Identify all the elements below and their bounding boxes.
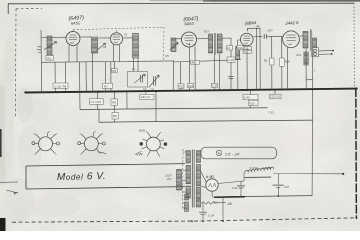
grid leak vertical x281	[281, 36, 283, 90]
capacitor C16 box	[212, 83, 218, 87]
tube T1 electrodes	[69, 35, 78, 43]
vertical rail-bus x65	[65, 62, 67, 92]
socket S1 spokes	[35, 132, 56, 153]
osc coil winding	[133, 34, 139, 59]
T3 leg 2	[194, 47, 196, 91]
padder arrow 2	[149, 75, 160, 87]
primary tap stubs	[183, 152, 186, 208]
resistor R12 box	[178, 84, 184, 89]
capacitor C10b box	[188, 83, 194, 88]
pilot lamp cross	[217, 152, 221, 155]
transformer secondary winding 2	[196, 165, 200, 187]
resistor R20b box	[249, 100, 259, 105]
socket S3 right terminal	[164, 143, 167, 146]
svg-text:(6B44: (6B44	[245, 20, 257, 26]
voice coil terminal 2	[314, 53, 317, 56]
IF2 primary winding	[209, 34, 213, 53]
volume pot box	[140, 94, 154, 99]
AVC cap bars	[228, 77, 234, 79]
T4 grid return twin vertical 1	[256, 28, 258, 90]
vertical x250 bus to line A through C40 R20	[250, 90, 252, 108]
volume box vertical to bus x146	[145, 92, 147, 95]
vertical x127 bus to line A	[126, 92, 128, 109]
coupling cap C4 bars	[264, 34, 266, 38]
heater wavy lead	[201, 202, 217, 204]
vertical x105 rail-bus	[105, 62, 107, 92]
svg-text:7.5.2: 7.5.2	[268, 111, 275, 115]
svg-text:R9: R9	[112, 100, 116, 104]
svg-text:FUSE - 0.5AM: FUSE - 0.5AM	[250, 166, 272, 170]
antenna coil winding	[47, 36, 52, 56]
speaker wire 1	[319, 50, 333, 52]
vertical x156 bus to line B	[155, 92, 157, 122]
PSU bottom rail	[239, 196, 312, 197]
filter cap C41 plates	[237, 186, 245, 188]
right solid dark border	[355, 88, 358, 219]
T5 cathode leg	[287, 48, 289, 91]
transformer primary winding 3	[186, 186, 191, 198]
svg-text:# 80: # 80	[206, 174, 215, 179]
socket S3 circle	[147, 137, 161, 151]
R6 stub vertical	[114, 62, 116, 69]
top edge scan smear	[203, 0, 360, 2]
T4 left winding hatch	[236, 47, 240, 60]
padder arrow 1	[134, 74, 145, 83]
capacitor C19 box	[243, 50, 252, 53]
svg-text:R16: R16	[244, 46, 249, 50]
vertical under antenna to bus	[40, 62, 42, 92]
voice coil terminal box	[312, 48, 319, 57]
svg-text:C19: C19	[244, 50, 249, 54]
svg-text:4V: 4V	[228, 202, 233, 206]
border junction dot 1	[191, 220, 193, 222]
tube T2 electrodes	[113, 35, 121, 43]
filter cap C43 plates	[273, 185, 284, 187]
capacitor C24 lower stub	[202, 214, 204, 219]
socket S3 bottom-left squiggle	[135, 153, 142, 156]
rectifier plate leads	[201, 171, 207, 187]
capacitor C24 plates	[199, 212, 207, 214]
line A to B corner vertical	[98, 109, 100, 122]
resistor R9 box	[111, 99, 118, 105]
svg-text:C-16: C-16	[212, 84, 219, 88]
title box notch arrow	[7, 191, 17, 195]
vertical x110 rail-bus	[110, 62, 112, 92]
title box top line	[26, 164, 185, 166]
transformer primary winding 1	[186, 151, 191, 164]
tube T3 electrodes	[184, 36, 193, 45]
bus end dot left	[24, 91, 26, 93]
socket S1 pin ticks	[34, 132, 57, 155]
svg-text:C10: C10	[188, 84, 194, 88]
svg-text:R21: R21	[297, 54, 302, 57]
title box left vertical	[25, 166, 27, 189]
resistor R17 box	[270, 58, 274, 65]
resistor R16 box	[243, 47, 252, 50]
capacitor C20 box	[227, 46, 233, 51]
coupling cap wire left	[254, 35, 263, 37]
tube T4 electrodes	[243, 36, 251, 44]
field coil winding in title box	[177, 170, 182, 191]
vertical rail-bus x79.5 to line A	[79, 62, 82, 110]
svg-text:C4?: C4?	[284, 185, 290, 189]
transformer primary winding 2	[186, 165, 191, 184]
right dotted border vertical top	[353, 3, 355, 88]
svg-text:C-10: C-10	[55, 84, 62, 88]
svg-text:AB2: AB2	[192, 61, 197, 65]
svg-text:C-18: C-18	[228, 58, 235, 62]
bottom dashed border	[12, 218, 356, 222]
plate wire T1 to IF1	[80, 36, 92, 38]
T5 plate wire	[300, 35, 304, 37]
T2 leg 1	[113, 45, 115, 62]
svg-text:5V.: 5V.	[214, 201, 219, 205]
detector rail extension	[173, 60, 231, 62]
transformer lower-left winding 2	[185, 202, 189, 212]
T1 leg 2	[76, 45, 78, 62]
left margin stray line	[0, 181, 18, 183]
svg-text:R14: R14	[238, 47, 243, 50]
vertical x114 bus to line B through R9 R8	[113, 92, 115, 122]
T4 leg to bus	[246, 53, 248, 91]
antenna coil trimmer arrow	[44, 42, 57, 50]
top border line	[8, 2, 354, 5]
left dashed border vertical	[15, 9, 18, 118]
IF1 winding leg to bus	[92, 53, 94, 92]
socket S2 spokes	[81, 132, 102, 153]
T4 grid return twin vertical 2	[259, 28, 261, 90]
socket S3 left terminal	[140, 142, 143, 145]
C22 stub below bus	[274, 90, 276, 94]
transformer secondary winding 3	[196, 188, 200, 199]
svg-text:C4?: C4?	[268, 29, 274, 33]
transformer secondary winding 4	[196, 200, 200, 208]
svg-text:C-24: C-24	[208, 214, 215, 218]
capacitor C40 box	[243, 95, 258, 100]
rectifier filaments	[208, 183, 216, 187]
voice coil terminal 1	[314, 49, 317, 52]
cathode resistor vertical x306	[305, 49, 307, 91]
svg-text:2442 A: 2442 A	[284, 20, 299, 26]
border junction dot 3	[222, 220, 224, 222]
T5 cathode resistor hatch	[304, 52, 308, 65]
svg-text:24?: 24?	[167, 177, 172, 181]
gang dashed vertical	[163, 27, 165, 60]
svg-text:C2: C2	[143, 87, 147, 91]
bottom-left black blob	[0, 218, 6, 231]
socket S3 spokes	[142, 133, 165, 156]
svg-text:R6: R6	[113, 69, 117, 73]
dial lamp rounded box	[201, 147, 277, 159]
svg-text:6A53: 6A53	[184, 21, 194, 27]
svg-text:232?: 232?	[166, 173, 172, 177]
T2 plate wire to osc coil	[123, 37, 133, 39]
tube T1 envelope	[66, 32, 80, 46]
capacitor C18 box	[227, 57, 235, 62]
socket S2 left terminal	[78, 142, 81, 145]
pilot lamp circle	[216, 150, 222, 156]
IF1 trimmer arrow	[97, 43, 106, 50]
grid resistor vertical x271	[271, 36, 273, 90]
B+ line B	[99, 120, 313, 122]
T2 top cap stub	[116, 29, 118, 32]
capacitor C22 box	[270, 94, 282, 98]
filter cap C43 lower lead	[277, 188, 279, 196]
bottom rail junction dot 1	[240, 196, 242, 198]
resistor R14 box	[237, 45, 244, 49]
rectifier T6 envelope	[206, 179, 218, 191]
vertical rail-bus x86	[85, 62, 87, 92]
rectifier bottom stub	[211, 191, 213, 197]
svg-text:6A5C: 6A5C	[71, 21, 81, 26]
B+ line A	[80, 108, 268, 110]
svg-text:2.0ʹ ~ 24ʹ: 2.0ʹ ~ 24ʹ	[224, 152, 240, 156]
tube T2 envelope	[110, 33, 122, 45]
vertical x173 trimmer to bus	[172, 60, 174, 91]
svg-text:R7: R7	[104, 84, 108, 88]
transformer lower-left winding 1	[185, 195, 189, 201]
svg-text:C#1 C2: C#1 C2	[141, 95, 151, 99]
capacitor C10 box	[53, 83, 68, 88]
IF1 to T2 grid wire	[98, 37, 110, 39]
vertical rail-bus x55	[54, 62, 56, 92]
tube T5 envelope	[283, 31, 300, 48]
jog up to fuse loops	[243, 173, 245, 181]
long screen vertical to PSU	[311, 48, 314, 196]
svg-text:R20: R20	[249, 101, 255, 105]
volume control box outline	[128, 71, 148, 87]
socket S2 pin ticks	[80, 132, 103, 155]
cathode link line	[306, 79, 312, 81]
svg-text:R4: R4	[63, 84, 67, 88]
socket S1 left terminal	[32, 142, 35, 145]
svg-text:Model 6 V.: Model 6 V.	[57, 171, 107, 183]
IF2 secondary winding	[217, 34, 222, 53]
svg-text:L6: L6	[132, 67, 136, 71]
T3 cathode vertical	[180, 62, 182, 91]
T3 leg 1	[189, 47, 191, 91]
resistor R20 box	[280, 58, 285, 66]
svg-text:C-40: C-40	[244, 95, 251, 99]
output transformer primary	[303, 32, 308, 49]
heater drop vertical to border	[222, 196, 224, 221]
svg-text:R1: R1	[48, 56, 52, 60]
svg-text:R1: R1	[264, 59, 268, 63]
IF2 core leg 1 to bus	[214, 54, 216, 91]
left border corner stub	[7, 4, 9, 14]
C24 drop vertical	[202, 203, 204, 212]
antenna ticks	[37, 47, 42, 53]
bottom rail junction dot 2	[277, 195, 279, 197]
svg-text:6C#1: 6C#1	[139, 129, 146, 133]
heater line right	[217, 202, 227, 204]
tube T4 envelope	[241, 33, 254, 46]
T4 left hatch to bus	[237, 60, 239, 91]
top-left dashed horizontal	[16, 8, 42, 10]
svg-text:R2: R2	[257, 24, 261, 28]
osc coil legs	[134, 58, 139, 71]
padder cap bars 2	[154, 76, 156, 85]
svg-text:C41: C41	[232, 186, 238, 190]
vertical x97 bus to line A	[96, 92, 98, 109]
svg-text:R12: R12	[179, 85, 185, 89]
socket S3 pin ticks	[138, 132, 162, 157]
socket S2 right terminal	[102, 142, 105, 145]
padder cap bars 1	[140, 75, 142, 83]
capacitor C7 box	[90, 99, 104, 105]
output transformer secondary	[313, 38, 317, 47]
svg-text:C7 10.5: C7 10.5	[91, 100, 102, 104]
series resistor AB box	[191, 61, 200, 65]
gang dashed line	[73, 27, 164, 30]
filter cap C43 lead	[277, 173, 279, 185]
socket S1 circle	[39, 137, 53, 151]
svg-text:C22 D-1: C22 D-1	[270, 95, 281, 99]
IF2 core leg 2 to bus	[219, 54, 221, 91]
speaker wire dots	[332, 50, 334, 52]
T4 left hatch leg	[238, 40, 241, 47]
filter cap C41 lead	[240, 181, 242, 185]
socket S1 right terminal	[57, 142, 60, 145]
rectifier output lead	[218, 181, 244, 184]
title box bottom line	[26, 187, 185, 189]
IF1b secondary winding left of T3	[171, 38, 176, 52]
IF2 out wire	[222, 38, 231, 91]
IF2 core lines	[215, 33, 216, 55]
speaker wire 2	[319, 53, 331, 55]
main ground bus	[25, 89, 357, 93]
transformer secondary winding 1	[196, 151, 200, 163]
svg-text:A: A	[218, 151, 220, 155]
AVC rail	[41, 61, 173, 62]
power transformer core	[192, 150, 194, 208]
diode load stub	[231, 58, 241, 60]
left edge dark strip	[0, 129, 2, 157]
svg-text:R20: R20	[285, 60, 291, 64]
junction dots on bus	[98, 91, 100, 93]
socket S2 circle	[84, 137, 98, 151]
T2 leg 2 with R6 stub	[119, 45, 121, 62]
filter cap C41 lower lead	[240, 188, 242, 196]
grid wire T1	[41, 36, 66, 38]
T1 leg 1	[68, 45, 70, 62]
resistor R7 box	[103, 83, 113, 88]
tube T3 envelope	[182, 32, 197, 47]
dashed vertical left of transformer	[182, 149, 184, 210]
rectifier cathode heavy lead	[214, 196, 240, 199]
IF1b trimmer arrow	[170, 43, 178, 51]
antenna vertical	[40, 30, 42, 62]
socket S2 wiggle label	[98, 152, 107, 154]
smear line under loops	[245, 176, 272, 179]
svg-text:6C4: 6C4	[204, 31, 209, 34]
svg-text:R8: R8	[113, 114, 117, 118]
resistor R8 box	[112, 113, 119, 120]
resistor R6 box	[112, 69, 117, 73]
coupling cap wire right	[268, 35, 283, 37]
resistor R1 box on rail	[46, 56, 54, 61]
T3 plate wire to IF2	[197, 37, 209, 39]
T4 top cap link	[248, 28, 261, 31]
tube T5 electrodes	[286, 35, 296, 45]
T3 grid wire from IF	[177, 38, 182, 40]
output transformer core	[310, 30, 312, 51]
border junction dot 2	[202, 220, 204, 222]
fuse resistance loops	[245, 167, 274, 173]
bus end dot right	[355, 87, 357, 89]
IF1 winding	[92, 37, 98, 53]
T1 top cap stub	[72, 30, 74, 31]
B+ rail right of loops	[274, 173, 343, 174]
svg-text:C6: C6	[151, 88, 155, 92]
